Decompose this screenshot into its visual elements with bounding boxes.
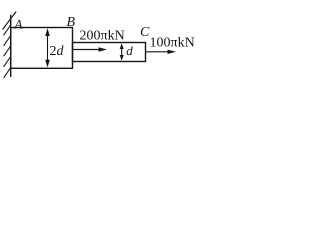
svg-text:B: B	[67, 15, 76, 30]
bar BC (small rectangle, diameter d)	[73, 43, 146, 62]
svg-text:d: d	[126, 43, 133, 58]
bar AB (large rectangle, diameter 2d)	[11, 28, 73, 69]
wall hatch stroke 2	[4, 25, 11, 36]
wall (fixed support) vertical line	[10, 15, 12, 77]
force arrow 200πkN at B (pointing right)	[73, 47, 107, 51]
svg-text:A: A	[14, 17, 23, 32]
svg-text:C: C	[140, 25, 150, 40]
force arrow 100πkN at C (pointing right)	[146, 50, 176, 54]
wall hatch stroke (top, crossing wall corner)	[3, 12, 17, 30]
dimension arrow 2d (vertical double-headed inside bar AB)	[45, 28, 50, 67]
svg-text:2d: 2d	[50, 44, 65, 59]
wall hatch stroke 6 (bottom, crossing wall end)	[4, 67, 11, 78]
svg-text:200πkN: 200πkN	[80, 29, 125, 44]
wall hatch stroke 5	[4, 56, 11, 67]
wall hatch stroke 3	[4, 35, 11, 46]
svg-text:100πkN: 100πkN	[150, 36, 195, 51]
wall hatch stroke 4	[4, 46, 11, 57]
dimension arrow d (vertical double-headed inside bar BC)	[120, 43, 124, 61]
